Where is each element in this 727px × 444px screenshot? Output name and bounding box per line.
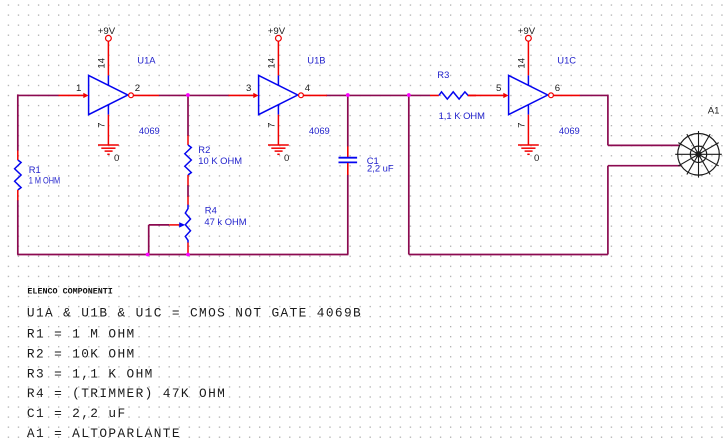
svg-text:14: 14 <box>516 57 527 68</box>
junction R2 top <box>186 93 190 97</box>
svg-text:6: 6 <box>555 83 560 94</box>
label ground node 0 (U1A) <box>114 153 119 164</box>
svg-text:1 M OHM: 1 M OHM <box>29 174 61 185</box>
wire R2 branch vertical <box>187 95 189 136</box>
junction rail R4 bottom <box>186 253 190 257</box>
pin 4 label U1B <box>305 83 311 94</box>
pin 14 label U1C <box>516 57 527 68</box>
wire left vertical lower (R1 to rail) <box>17 200 19 255</box>
svg-text:3: 3 <box>246 83 251 94</box>
svg-text:R1: R1 <box>29 164 41 175</box>
svg-text:U1A: U1A <box>137 54 156 65</box>
svg-text:4: 4 <box>305 83 311 94</box>
wire speaker top vertical <box>607 95 609 146</box>
label U1B value 4069 <box>309 125 330 136</box>
wire left vertical upper (to R1) <box>17 94 19 150</box>
pin 1 label U1A <box>76 83 81 94</box>
svg-text:47 k OHM: 47 k OHM <box>204 216 246 227</box>
wire bottom-left rail <box>17 254 348 256</box>
wire input net U1A horizontal <box>18 94 59 96</box>
label R1 value 1 M OHM <box>29 174 61 185</box>
svg-text:7: 7 <box>266 123 277 128</box>
resistor R1 <box>15 151 22 201</box>
wire bottom-right rail <box>409 254 608 256</box>
svg-text:+9V: +9V <box>518 26 536 37</box>
wire R4 wiper horizontal maroon <box>149 224 170 226</box>
label R1 designator <box>29 164 41 175</box>
label R4 designator <box>205 205 217 216</box>
ground U1A <box>98 145 119 154</box>
ground U1C <box>518 145 539 154</box>
svg-text:5: 5 <box>496 83 501 94</box>
svg-text:7: 7 <box>516 123 527 128</box>
label C1 designator <box>367 155 379 166</box>
label power net +9V (U1C) <box>518 26 536 37</box>
ground U1B <box>268 145 289 154</box>
svg-text:1: 1 <box>76 83 81 94</box>
label R3 value 1,1 K OHM <box>439 110 486 121</box>
pin 2 label U1A <box>135 83 140 94</box>
junction rail R4 wiper <box>146 253 150 257</box>
wire U1C output maroon <box>580 94 608 96</box>
power +9V U1B <box>276 35 282 41</box>
svg-text:4069: 4069 <box>559 125 580 136</box>
resistor R3 <box>430 92 476 99</box>
resistor R2 <box>185 136 192 186</box>
speaker A1 <box>675 131 722 178</box>
svg-text:10 K OHM: 10 K OHM <box>198 155 242 166</box>
pin 7 label U1A <box>96 123 107 128</box>
capacitor C1 <box>339 146 358 175</box>
label U1C value 4069 <box>559 125 580 136</box>
svg-text:+9V: +9V <box>268 26 286 37</box>
label R3 designator <box>437 69 449 80</box>
svg-text:A1: A1 <box>708 106 720 117</box>
svg-text:U1C: U1C <box>557 54 576 65</box>
svg-text:R3: R3 <box>437 69 449 80</box>
label U1C designator <box>557 54 576 65</box>
label R2 value 10 K OHM <box>198 155 242 166</box>
label C1 value 2,2 uF <box>367 162 394 173</box>
power +9V U1C <box>526 35 532 41</box>
svg-text:1,1 K OHM: 1,1 K OHM <box>439 110 486 121</box>
inverter U1C <box>468 41 580 145</box>
svg-text:0: 0 <box>534 153 539 164</box>
pin 7 label U1C <box>516 123 527 128</box>
wire U1A output to U1B input <box>159 94 229 96</box>
wire feedback vertical at x409 <box>408 95 410 255</box>
label U1A designator <box>137 54 156 65</box>
label ground node 0 (U1C) <box>534 153 539 164</box>
wire C1 bottom maroon <box>347 175 349 255</box>
label power net +9V (U1B) <box>268 26 286 37</box>
svg-text:0: 0 <box>114 153 119 164</box>
svg-text:R4: R4 <box>205 205 217 216</box>
svg-text:R2: R2 <box>198 144 210 155</box>
wire R2 to R4 connector <box>187 185 189 197</box>
svg-text:R1 = 1 M OHM: R1 = 1 M OHM <box>27 326 136 341</box>
wire speaker top horizontal <box>608 144 680 146</box>
svg-text:7: 7 <box>96 123 107 128</box>
pin 6 label U1C <box>555 83 560 94</box>
junction C1 top <box>346 93 350 97</box>
wire R4 wiper vertical <box>148 225 150 255</box>
parts list title <box>27 286 112 296</box>
power +9V U1A <box>106 35 112 41</box>
pin 14 label U1B <box>266 57 277 68</box>
wire U1B output to R3 <box>326 94 430 96</box>
wire speaker bottom vertical <box>607 166 609 255</box>
svg-text:U1B: U1B <box>307 54 325 65</box>
junction feedback <box>407 93 411 97</box>
potentiometer R4 (trimmer) <box>169 196 190 254</box>
inverter U1A <box>59 41 159 145</box>
label R2 designator <box>198 144 210 155</box>
svg-text:+9V: +9V <box>98 26 116 37</box>
label ground node 0 (U1B) <box>284 153 289 164</box>
wire C1 top maroon <box>347 95 349 147</box>
svg-text:0: 0 <box>284 153 289 164</box>
svg-text:R2 = 10K OHM: R2 = 10K OHM <box>27 346 136 361</box>
label power net +9V (U1A) <box>98 26 116 37</box>
svg-text:2,2 uF: 2,2 uF <box>367 162 394 173</box>
svg-text:A1 = ALTOPARLANTE: A1 = ALTOPARLANTE <box>27 426 181 441</box>
svg-text:14: 14 <box>96 57 107 68</box>
svg-text:14: 14 <box>266 57 277 68</box>
svg-text:R4 = (TRIMMER) 47K OHM: R4 = (TRIMMER) 47K OHM <box>27 386 226 401</box>
svg-text:C1 = 2,2 uF: C1 = 2,2 uF <box>27 406 127 421</box>
parts list lines <box>27 306 362 442</box>
svg-text:R3 = 1,1 K OHM: R3 = 1,1 K OHM <box>27 366 154 381</box>
svg-text:4069: 4069 <box>309 125 330 136</box>
svg-text:4069: 4069 <box>139 125 160 136</box>
svg-text:2: 2 <box>135 83 140 94</box>
label U1A value 4069 <box>139 125 160 136</box>
label A1 designator <box>708 106 720 117</box>
svg-text:ELENCO COMPONENTI: ELENCO COMPONENTI <box>27 286 112 296</box>
inverter U1B <box>229 41 327 145</box>
pin 7 label U1B <box>266 123 277 128</box>
label U1B designator <box>307 54 325 65</box>
wire speaker bottom horizontal <box>608 165 681 167</box>
label R4 value 47 k OHM <box>204 216 246 227</box>
pin 3 label U1B <box>246 83 251 94</box>
pin 5 label U1C <box>496 83 501 94</box>
svg-text:U1A & U1B & U1C = CMOS NOT GAT: U1A & U1B & U1C = CMOS NOT GATE 4069B <box>27 306 362 321</box>
pin 14 label U1A <box>96 57 107 68</box>
